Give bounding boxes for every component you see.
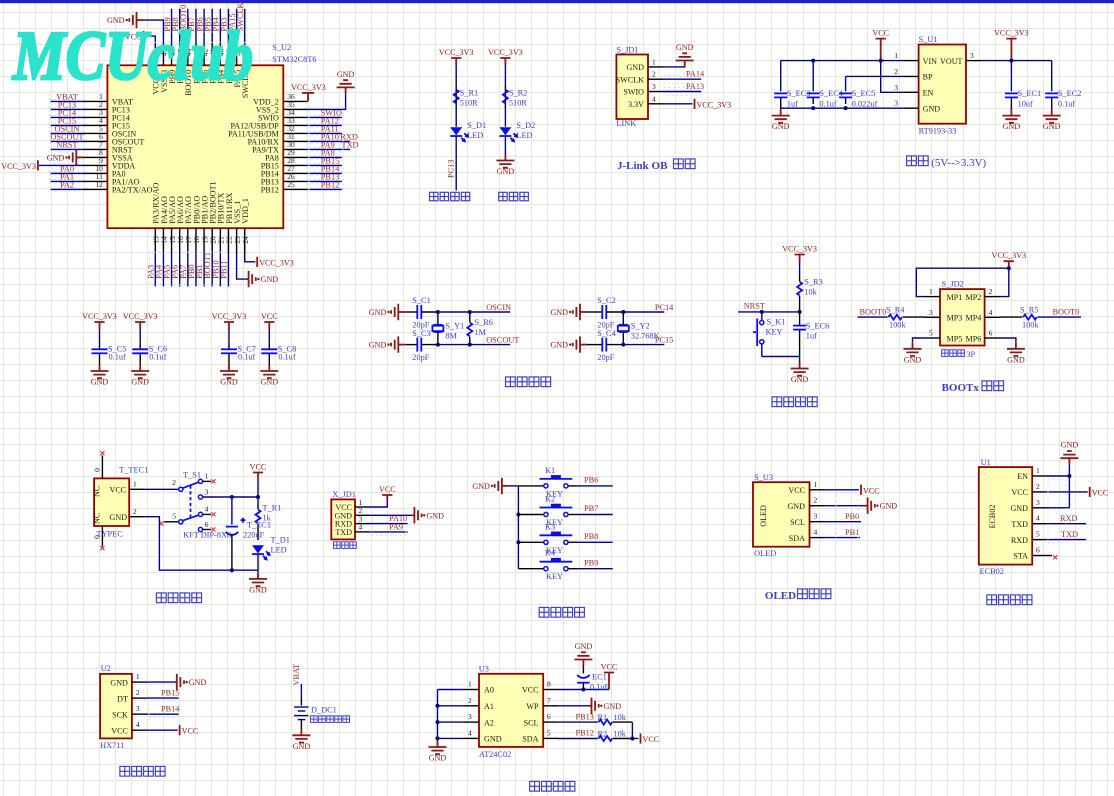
ground GND above EC1 xyxy=(582,660,584,666)
U2 pin 17 (PA7/AO) stub xyxy=(187,228,189,252)
U2 pin 37 (SWCLK) stub xyxy=(244,43,246,66)
svg-text:S_R6: S_R6 xyxy=(475,318,493,327)
svg-text:32.768K: 32.768K xyxy=(631,332,660,341)
switch T_S1 lower pole xyxy=(164,521,179,523)
svg-text:T_D1: T_D1 xyxy=(271,536,290,545)
svg-text:2: 2 xyxy=(1036,482,1040,491)
U3 pin 6 (SCL) stub xyxy=(543,721,558,723)
S_JD2 pins 5,6 (MP5 MP6) xyxy=(925,337,940,339)
svg-text:MCUclub: MCUclub xyxy=(12,18,253,95)
U2 pin 44 (BOOT0) stub xyxy=(187,43,189,66)
U2 pin 41 (PB5) stub xyxy=(211,43,213,66)
svg-text:GND: GND xyxy=(880,502,898,511)
X_JD1 pin 2 (GND) stub xyxy=(355,514,369,516)
svg-text:0.1uf: 0.1uf xyxy=(819,99,837,108)
svg-text:4: 4 xyxy=(205,505,209,514)
svg-text:ECB02: ECB02 xyxy=(988,505,997,529)
svg-text:VCC: VCC xyxy=(1011,488,1028,497)
wire net PA13 xyxy=(663,91,701,93)
svg-text:S_EC5: S_EC5 xyxy=(852,89,876,98)
power port VCC feeding U2 pin 48 VDD_3 xyxy=(143,31,145,41)
svg-text:VCC_3V3: VCC_3V3 xyxy=(697,100,732,109)
T_TEC1 pin 2 (GND) stub xyxy=(129,516,143,518)
svg-text:0: 0 xyxy=(92,535,101,539)
svg-text:100k: 100k xyxy=(889,320,906,329)
wire net BOOT1 (U2 pin 20) xyxy=(211,253,213,287)
title 复位电路 (reset circuit) xyxy=(772,397,782,407)
title 按键电路 (key circuit) xyxy=(539,607,549,617)
wire net PB9 xyxy=(568,568,577,570)
svg-text:VCC: VCC xyxy=(250,463,267,472)
svg-text:NRST: NRST xyxy=(56,140,77,149)
svg-text:TXD: TXD xyxy=(1061,530,1078,539)
wire S_U3 pin1 to VCC xyxy=(824,489,859,491)
svg-text:GND: GND xyxy=(91,378,109,387)
U2 pin 43 (PB7) stub xyxy=(195,43,197,66)
wire net PB1 (U2 pin 19) xyxy=(203,253,205,287)
capacitor S_EC3 1uf xyxy=(774,92,787,94)
S_U3 pin 1 (VCC) stub xyxy=(810,489,825,491)
capacitor S_C4 20pF xyxy=(587,344,602,346)
eeprom U3 body AT24C02 xyxy=(479,674,543,747)
svg-text:PA2/TX/AO: PA2/TX/AO xyxy=(112,186,153,195)
svg-text:3: 3 xyxy=(1036,498,1040,507)
title 存储模块 (storage module) xyxy=(530,781,540,791)
U2 pin 11 (PA1/AO) stub xyxy=(83,180,107,182)
wire U3 address pins to ground bus xyxy=(438,689,465,691)
ground GND below S_EC2 xyxy=(1051,107,1053,110)
svg-text:X_JD1: X_JD1 xyxy=(332,490,356,499)
connector S_JD2 body xyxy=(940,289,985,345)
svg-text:VCC: VCC xyxy=(182,727,199,736)
X_JD1 pin 3 (RXD) stub xyxy=(355,523,369,525)
svg-text:PB13: PB13 xyxy=(576,712,594,721)
wire net SWCLK (U2 pin 37) xyxy=(244,9,246,43)
power port VCC above U1 VIN xyxy=(876,39,886,61)
svg-text:PB6: PB6 xyxy=(584,476,598,485)
U2 pin 3 (PC14) stub xyxy=(83,116,107,118)
svg-text:VCC: VCC xyxy=(872,29,889,38)
svg-text:GND: GND xyxy=(189,678,207,687)
U1 pin 2 (VCC) stub xyxy=(1032,491,1046,493)
ground GND below battery xyxy=(300,729,302,735)
ground GND at U3 WP xyxy=(589,705,592,707)
U2 pin 38 (PA15) stub xyxy=(236,43,238,66)
wire S_JD2 pin5 to ground xyxy=(913,338,926,343)
wire net PB15 (U2 pin 28) xyxy=(308,164,342,166)
connector S_JD1 body xyxy=(616,55,648,120)
svg-text:510R: 510R xyxy=(460,99,478,108)
bluetooth U1 body ECB02 xyxy=(979,467,1032,564)
svg-text:LED: LED xyxy=(516,131,532,140)
svg-text:GND: GND xyxy=(1007,355,1025,364)
svg-text:J-Link OB: J-Link OB xyxy=(617,160,668,172)
capacitor S_EC6 1uf xyxy=(799,312,801,326)
svg-text:2: 2 xyxy=(652,70,656,79)
wire net PA10 (download) xyxy=(369,523,408,525)
U2 pin 22 (PB11/RX) stub xyxy=(227,228,229,252)
svg-text:8M: 8M xyxy=(445,332,457,341)
svg-text:RT9193-33: RT9193-33 xyxy=(919,127,957,136)
svg-text:STA: STA xyxy=(1013,552,1028,561)
svg-text:VCC_3V3: VCC_3V3 xyxy=(1,162,36,171)
svg-text:PB12: PB12 xyxy=(321,180,339,189)
svg-text:MP3: MP3 xyxy=(947,314,963,323)
wire bottom row to PC15 xyxy=(623,344,664,346)
OLED S_U3 body xyxy=(753,482,810,547)
ground GND below S_D2 xyxy=(504,155,506,161)
resistor R1 10k pullup SCL xyxy=(558,721,598,723)
svg-text:5: 5 xyxy=(929,329,933,338)
wire net PB10 (U2 pin 21) xyxy=(219,253,221,287)
svg-text:PC13: PC13 xyxy=(447,160,456,178)
wire net PA3 (U2 pin 13) xyxy=(154,253,156,287)
svg-text:S_EC1: S_EC1 xyxy=(1018,89,1042,98)
wire net PA4 (U2 pin 14) xyxy=(162,253,164,287)
U2 pin 15 (PA5/AO) stub xyxy=(171,228,173,252)
svg-text:S_U2: S_U2 xyxy=(272,43,291,52)
svg-text:1: 1 xyxy=(136,672,140,681)
wire S_C1 to junction (top) xyxy=(422,311,438,313)
svg-text:S_R4: S_R4 xyxy=(886,306,905,315)
svg-text:RXD: RXD xyxy=(1011,536,1028,545)
LED S_D2 xyxy=(504,108,506,127)
svg-text:S_Y1: S_Y1 xyxy=(445,322,464,331)
power port VCC at bluetooth xyxy=(1089,487,1091,497)
wire T_D1 to ground xyxy=(257,555,259,571)
wire net PC15 (U2 pin 4) xyxy=(51,124,84,126)
svg-text:3.3V: 3.3V xyxy=(628,100,644,109)
svg-text:K4: K4 xyxy=(545,549,556,558)
svg-text:VCC_3V3: VCC_3V3 xyxy=(991,251,1026,260)
wire S_JD1 pin4 to VCC_3V3 xyxy=(663,103,693,105)
wire reset bottom rail xyxy=(762,356,800,358)
svg-text:5: 5 xyxy=(1036,530,1040,539)
U1 pin 5 (RXD) stub xyxy=(1032,539,1046,541)
svg-text:VCC: VCC xyxy=(1092,488,1109,497)
title 电源灯 (power LED) xyxy=(499,192,507,200)
ground GND for keys xyxy=(502,485,509,487)
wire VOUT rail xyxy=(981,60,1052,62)
U2 pin 24 (VDD_1) stub xyxy=(244,228,246,252)
svg-text:3: 3 xyxy=(814,512,818,521)
svg-text:STM32C8T6: STM32C8T6 xyxy=(272,55,316,64)
wire net PA2 (U2 pin 12) xyxy=(51,188,84,190)
wire net NRST xyxy=(738,311,800,313)
wire VDDA to VCC_3V3 xyxy=(39,164,83,166)
svg-text:S_EC2: S_EC2 xyxy=(1058,89,1082,98)
wire U1 VCC to VCC xyxy=(1046,491,1088,493)
wire VDD_1 to VCC_3V3 xyxy=(245,253,256,262)
svg-text:ECB02: ECB02 xyxy=(980,567,1004,576)
svg-text:3: 3 xyxy=(894,99,898,108)
wire net PA14 xyxy=(663,78,701,80)
svg-text:S_JD2: S_JD2 xyxy=(942,280,964,289)
svg-text:SWIO: SWIO xyxy=(623,88,644,97)
svg-text:GND: GND xyxy=(261,378,279,387)
wire net PB0 xyxy=(824,521,861,523)
sheet top border xyxy=(0,0,1114,3)
U2 pin 48 (VCC_3) stub xyxy=(154,43,156,66)
wire net PA5 (U2 pin 15) xyxy=(171,253,173,287)
svg-text:GND: GND xyxy=(131,378,149,387)
svg-text:4: 4 xyxy=(468,728,472,737)
capacitor S_C1 20pF xyxy=(405,311,417,313)
wire S_C3 to junction (bottom) xyxy=(422,344,438,346)
capacitor S_C8 0.1uf xyxy=(268,330,270,343)
wire net PA12 (U2 pin 33) xyxy=(308,124,342,126)
svg-text:PB8: PB8 xyxy=(584,532,598,541)
bluetooth STA no-connect xyxy=(1046,555,1052,557)
svg-text:WP: WP xyxy=(526,702,539,711)
svg-text:VCC: VCC xyxy=(379,485,396,494)
crystal S_Y2 32.768K xyxy=(622,312,624,325)
wire net VBAT (U2 pin 1) xyxy=(51,100,84,102)
svg-text:GND: GND xyxy=(1003,122,1021,131)
svg-text:0.1uF: 0.1uF xyxy=(590,682,610,691)
U2 pin 2 (PC13) stub xyxy=(83,108,107,110)
resistor S_R5 100k xyxy=(1000,316,1023,318)
connector S_JD2 value 跳线帽3P xyxy=(942,350,949,357)
svg-text:GND: GND xyxy=(472,482,490,491)
U3 pin 3 (A2) stub xyxy=(464,721,479,723)
wire net RXD (bluetooth TXD) xyxy=(1046,523,1086,525)
U2 pin 30 (PA9/TX) stub xyxy=(283,148,307,150)
U3 pin 2 (A1) stub xyxy=(464,705,479,707)
power port VCC_3V3 above S_C6 xyxy=(135,322,145,330)
title 可编程灯 (programmable LED) xyxy=(430,192,438,200)
wire X_JD1 pin2 to ground xyxy=(369,514,411,516)
svg-text:OLED: OLED xyxy=(765,590,796,602)
battery D_DC1 coin cell holder xyxy=(294,706,308,708)
wire VCC rail down xyxy=(257,478,259,506)
power port VCC_3V3 above VOUT xyxy=(1006,39,1016,61)
svg-text:A2: A2 xyxy=(484,718,494,727)
U2 pin 34 (SWIO) stub xyxy=(283,116,307,118)
power port VCC above rail xyxy=(253,473,263,478)
U2 pin 36 (VDD_2) stub xyxy=(283,100,307,102)
svg-text:1: 1 xyxy=(929,287,933,296)
svg-text:4: 4 xyxy=(1036,514,1040,523)
push button K2 KEY xyxy=(518,514,543,516)
switch T_S1 body KFT DIP-8X8 xyxy=(143,488,179,490)
U2 pin 31 (PA10/RX) stub xyxy=(283,140,307,142)
capacitor T_EC1 220uF (polarized) xyxy=(231,497,233,525)
svg-text:A1: A1 xyxy=(484,702,494,711)
svg-text:PA13: PA13 xyxy=(686,82,704,91)
svg-text:3: 3 xyxy=(652,82,656,91)
ground GND above bluetooth xyxy=(1068,458,1070,464)
svg-text:GND: GND xyxy=(426,511,444,520)
svg-text:MP6: MP6 xyxy=(966,334,982,343)
wire net PB1 xyxy=(824,537,860,539)
wire S_C2 to junction (top) xyxy=(607,311,624,313)
U2 pin 25 (PB12) stub xyxy=(283,188,307,190)
svg-text:R1: R1 xyxy=(598,713,608,722)
svg-text:PB12: PB12 xyxy=(261,186,279,195)
power port VCC above S_C8 xyxy=(264,322,274,330)
svg-text:100k: 100k xyxy=(1022,320,1039,329)
svg-text:S_Y2: S_Y2 xyxy=(631,322,650,331)
wire net PA9 (U2 pin 30) xyxy=(308,148,351,150)
wire S_K1 to bottom rail xyxy=(761,344,763,357)
capacitor S_C2 20pF xyxy=(587,311,602,313)
svg-text:LED: LED xyxy=(271,546,287,555)
wire net PB15 xyxy=(147,697,179,699)
svg-text:6: 6 xyxy=(547,712,551,721)
wire net TXD (bluetooth RXD) xyxy=(1046,539,1086,541)
ground GND below S_C6 xyxy=(139,365,141,371)
svg-text:1M: 1M xyxy=(475,328,487,337)
ground GND below U3 address bus xyxy=(437,741,439,747)
svg-text:2: 2 xyxy=(172,478,176,487)
U2 pin 12 (PA2/TX/AO) stub xyxy=(83,188,107,190)
svg-text:10k: 10k xyxy=(614,713,627,722)
LED S_D1 xyxy=(455,108,457,127)
ground GND at VSS_2 xyxy=(345,87,347,93)
wire net PB14 (U2 pin 27) xyxy=(308,172,342,174)
svg-text:PA14: PA14 xyxy=(686,70,705,79)
wire battery to ground xyxy=(300,720,302,730)
power port VCC above X_JD1 xyxy=(382,495,392,499)
svg-text:S_U1: S_U1 xyxy=(919,35,938,44)
wire VDD_3 pin48 to VCC xyxy=(144,36,156,43)
U2 pin 27 (PB14) stub xyxy=(283,172,307,174)
svg-text:TXD: TXD xyxy=(1011,520,1028,529)
resistor R2 10k pullup SDA xyxy=(558,738,598,740)
svg-text:GND: GND xyxy=(1010,504,1028,513)
svg-text:8: 8 xyxy=(547,680,551,689)
svg-text:S_C2: S_C2 xyxy=(597,296,615,305)
U2 pin 28 (PB15) stub xyxy=(283,164,307,166)
svg-text:GND: GND xyxy=(220,378,238,387)
wire net PA15 (U2 pin 38) xyxy=(236,9,238,43)
U1 pin 1 (EN) stub xyxy=(1032,475,1046,477)
push button S_K1 KEY xyxy=(761,312,763,321)
svg-text:3: 3 xyxy=(205,487,209,496)
resistor S_R3 10k xyxy=(799,262,801,275)
wire T_S1 pin3 to VCC rail xyxy=(203,496,258,498)
svg-text:5: 5 xyxy=(547,728,551,737)
wire net PB13 (U2 pin 26) xyxy=(308,180,342,182)
svg-text:U1: U1 xyxy=(981,458,991,467)
svg-text:BOOTx: BOOTx xyxy=(942,382,980,394)
svg-text:VCC: VCC xyxy=(110,486,127,495)
svg-text:OLED: OLED xyxy=(754,549,776,558)
svg-text:VDD_1: VDD_1 xyxy=(241,198,250,224)
svg-text:NRST: NRST xyxy=(744,302,765,311)
svg-text:S_R5: S_R5 xyxy=(1020,306,1038,315)
svg-text:SDA: SDA xyxy=(522,735,538,744)
svg-text:VCC: VCC xyxy=(261,312,278,321)
power port VCC at pullups xyxy=(640,733,642,743)
svg-text:10k: 10k xyxy=(614,729,627,738)
svg-text:4: 4 xyxy=(989,308,993,317)
title 称重模块 (weighing module) xyxy=(120,766,130,776)
capacitor S_C5 0.1uf xyxy=(99,330,101,343)
svg-text:T_EC1: T_EC1 xyxy=(247,521,271,530)
svg-text:S_C1: S_C1 xyxy=(412,296,430,305)
power port VCC_3V3 above S_C7 xyxy=(224,322,234,330)
svg-text:SCL: SCL xyxy=(524,718,539,727)
U2 pin 8 (VSSA) stub xyxy=(83,156,107,158)
U2 pin 33 (PA12/USB/DP) stub xyxy=(283,124,307,126)
ground GND at VSSA xyxy=(76,156,83,158)
svg-text:GND: GND xyxy=(550,341,568,350)
svg-text:GND: GND xyxy=(923,104,941,113)
svg-text:SWCLK: SWCLK xyxy=(616,75,644,84)
svg-text:3P: 3P xyxy=(966,350,975,359)
U1 pin 3 (EN) stub xyxy=(904,91,919,93)
svg-text:24: 24 xyxy=(241,236,250,244)
U2 pin 21 (PB10/TX) stub xyxy=(219,228,221,252)
svg-text:S_C3: S_C3 xyxy=(412,329,430,338)
U2 pin 32 (PA11/USB/DM) stub xyxy=(283,132,307,134)
svg-text:S_C4: S_C4 xyxy=(597,329,616,338)
svg-text:VCC_3V3: VCC_3V3 xyxy=(488,48,523,57)
wire net SWIO (U2 pin 34) xyxy=(308,116,342,118)
svg-text:OLED: OLED xyxy=(759,505,768,527)
ground GND feeding U2 pin 47 VSS_3 xyxy=(137,19,144,21)
svg-text:S_U3: S_U3 xyxy=(754,473,773,482)
svg-text:20pF: 20pF xyxy=(412,353,429,362)
U2 pin 14 (PA4/AO) stub xyxy=(162,228,164,252)
wire S_JD1 pin1 to ground xyxy=(663,66,685,68)
svg-text:GND: GND xyxy=(575,642,593,651)
S_U3 pin 2 (GND) stub xyxy=(810,505,825,507)
svg-text:GND: GND xyxy=(110,513,128,522)
svg-text:VBAT: VBAT xyxy=(292,664,301,686)
svg-text:PB15: PB15 xyxy=(161,688,179,697)
svg-text:VCC_3V3: VCC_3V3 xyxy=(123,312,158,321)
power port VCC at HX711 xyxy=(179,725,181,735)
svg-text:2: 2 xyxy=(814,496,818,505)
U2 pin 13 (PA3/RX/AO) stub xyxy=(154,228,156,252)
T_TEC1 pin 1 (VCC) stub xyxy=(129,488,143,490)
wire net PB11 (U2 pin 22) xyxy=(227,253,229,287)
ground GND right of X_JD1 xyxy=(411,514,414,516)
power port VCC_3V3 at VDDA xyxy=(37,160,39,170)
svg-text:HX711: HX711 xyxy=(100,741,124,750)
svg-text:PB11: PB11 xyxy=(219,261,228,279)
wire net PB7 xyxy=(568,514,577,516)
svg-text:1uf: 1uf xyxy=(787,99,798,108)
svg-text:EN: EN xyxy=(923,89,934,98)
U3 pin 4 (GND) stub xyxy=(464,737,479,739)
wire net PA11 (U2 pin 32) xyxy=(308,132,342,134)
svg-text:GND: GND xyxy=(904,355,922,364)
svg-text:GND: GND xyxy=(484,735,502,744)
wire VCC_3V3 to S_JD2 pin1 xyxy=(916,268,1009,296)
svg-text:10k: 10k xyxy=(804,288,817,297)
U2 pin 7 (NRST) stub xyxy=(83,148,107,150)
wire net PB6 (U2 pin 42) xyxy=(203,9,205,43)
wire net PC14 (U2 pin 3) xyxy=(51,116,84,118)
svg-text:GND: GND xyxy=(676,43,694,52)
ground GND below S_C8 xyxy=(268,365,270,371)
svg-text:6: 6 xyxy=(205,520,209,529)
power port VCC_3V3 above S_JD2 xyxy=(1004,261,1014,268)
regulator U1 body RT9193-33 xyxy=(919,45,966,124)
crystal S_Y1 8M xyxy=(437,312,439,325)
svg-text:(5V-->3.3V): (5V-->3.3V) xyxy=(931,157,986,169)
svg-text:GND: GND xyxy=(1043,122,1061,131)
svg-text:0.1uf: 0.1uf xyxy=(149,353,167,362)
svg-text:T_R1: T_R1 xyxy=(263,504,282,513)
U2(HX711) pin 4 (VCC) stub xyxy=(132,729,147,731)
svg-text:PB0: PB0 xyxy=(845,512,859,521)
U2 pin 29 (PA8) stub xyxy=(283,156,307,158)
